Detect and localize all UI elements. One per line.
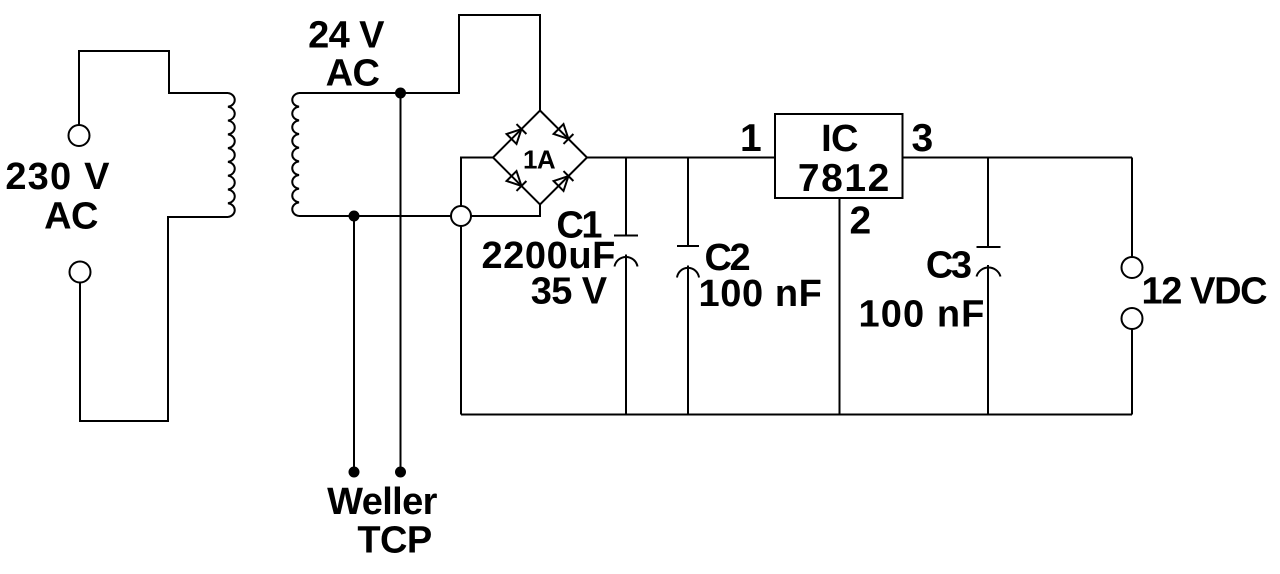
capacitor C3 bottom lead [987,265,989,415]
node crossover hop circle [451,206,471,226]
capacitor C2 top plate [677,245,699,247]
diode bridge top-left [507,124,527,144]
wire output positive [1131,158,1133,258]
capacitor C1 bottom plate arc [615,257,638,267]
wire ground rail [461,414,1132,416]
node junction dot on 24V bottom wire [350,212,359,221]
svg-text:2: 2 [849,200,870,243]
svg-text:TCP: TCP [357,520,431,562]
svg-text:35 V: 35 V [531,271,608,313]
svg-text:12 VDC: 12 VDC [1142,271,1268,313]
wire output negative [1131,329,1133,415]
svg-text:AC: AC [326,53,380,95]
wire IC pin2 to ground [839,199,841,415]
bridge rectifier diamond [493,111,587,205]
IC U1 regulator box [775,114,903,198]
terminal 230V top [69,125,90,146]
wire IC output to load [903,157,1132,159]
svg-text:1A: 1A [523,144,556,174]
svg-text:7812: 7812 [798,157,891,200]
terminal 12VDC minus [1122,308,1143,329]
svg-text:C3: C3 [926,245,971,287]
svg-text:1: 1 [740,117,761,160]
svg-text:100 nF: 100 nF [859,294,986,336]
capacitor C3 bottom plate arc [977,267,1001,276]
wire bridge plus to IC input [587,157,775,159]
wire bridge minus to ground rail [461,158,493,415]
svg-text:3: 3 [911,117,932,160]
wire secondary top to bridge AC1 [299,15,540,111]
svg-text:24 V: 24 V [308,15,385,57]
capacitor C1 top plate [614,235,638,237]
capacitor C2 bottom lead [687,266,689,415]
capacitor C2 bottom plate arc [677,268,699,278]
transformer T1 secondary winding [292,93,299,216]
capacitor C3 top plate [977,246,1001,248]
capacitor C1 top lead [625,158,627,236]
wire Weller lead 2 [353,216,355,470]
svg-text:IC: IC [821,118,858,160]
svg-text:230 V: 230 V [5,156,110,198]
capacitor C1 bottom lead [625,255,627,415]
node junction dot on 24V top wire [396,89,405,98]
svg-text:Weller: Weller [327,481,438,523]
diode bridge top-right [554,124,574,144]
wire primary top: terminal up over to coil [79,51,228,125]
capacitor C3 top lead [987,158,989,248]
terminal 12VDC plus [1122,257,1143,278]
capacitor C2 top lead [687,158,689,247]
svg-text:AC: AC [44,196,98,238]
wire primary bottom: coil left down around to terminal [80,217,228,421]
transformer T1 primary winding [228,93,235,217]
wire Weller lead 1 [400,93,402,470]
node Weller terminal dot 2 [350,468,359,477]
terminal 230V bottom [70,262,91,283]
diode bridge bottom-right [554,171,574,191]
svg-text:100 nF: 100 nF [699,273,823,315]
node Weller terminal dot 1 [396,468,405,477]
wire secondary bottom to bridge AC2 [299,205,540,217]
diode bridge bottom-left [507,171,527,191]
